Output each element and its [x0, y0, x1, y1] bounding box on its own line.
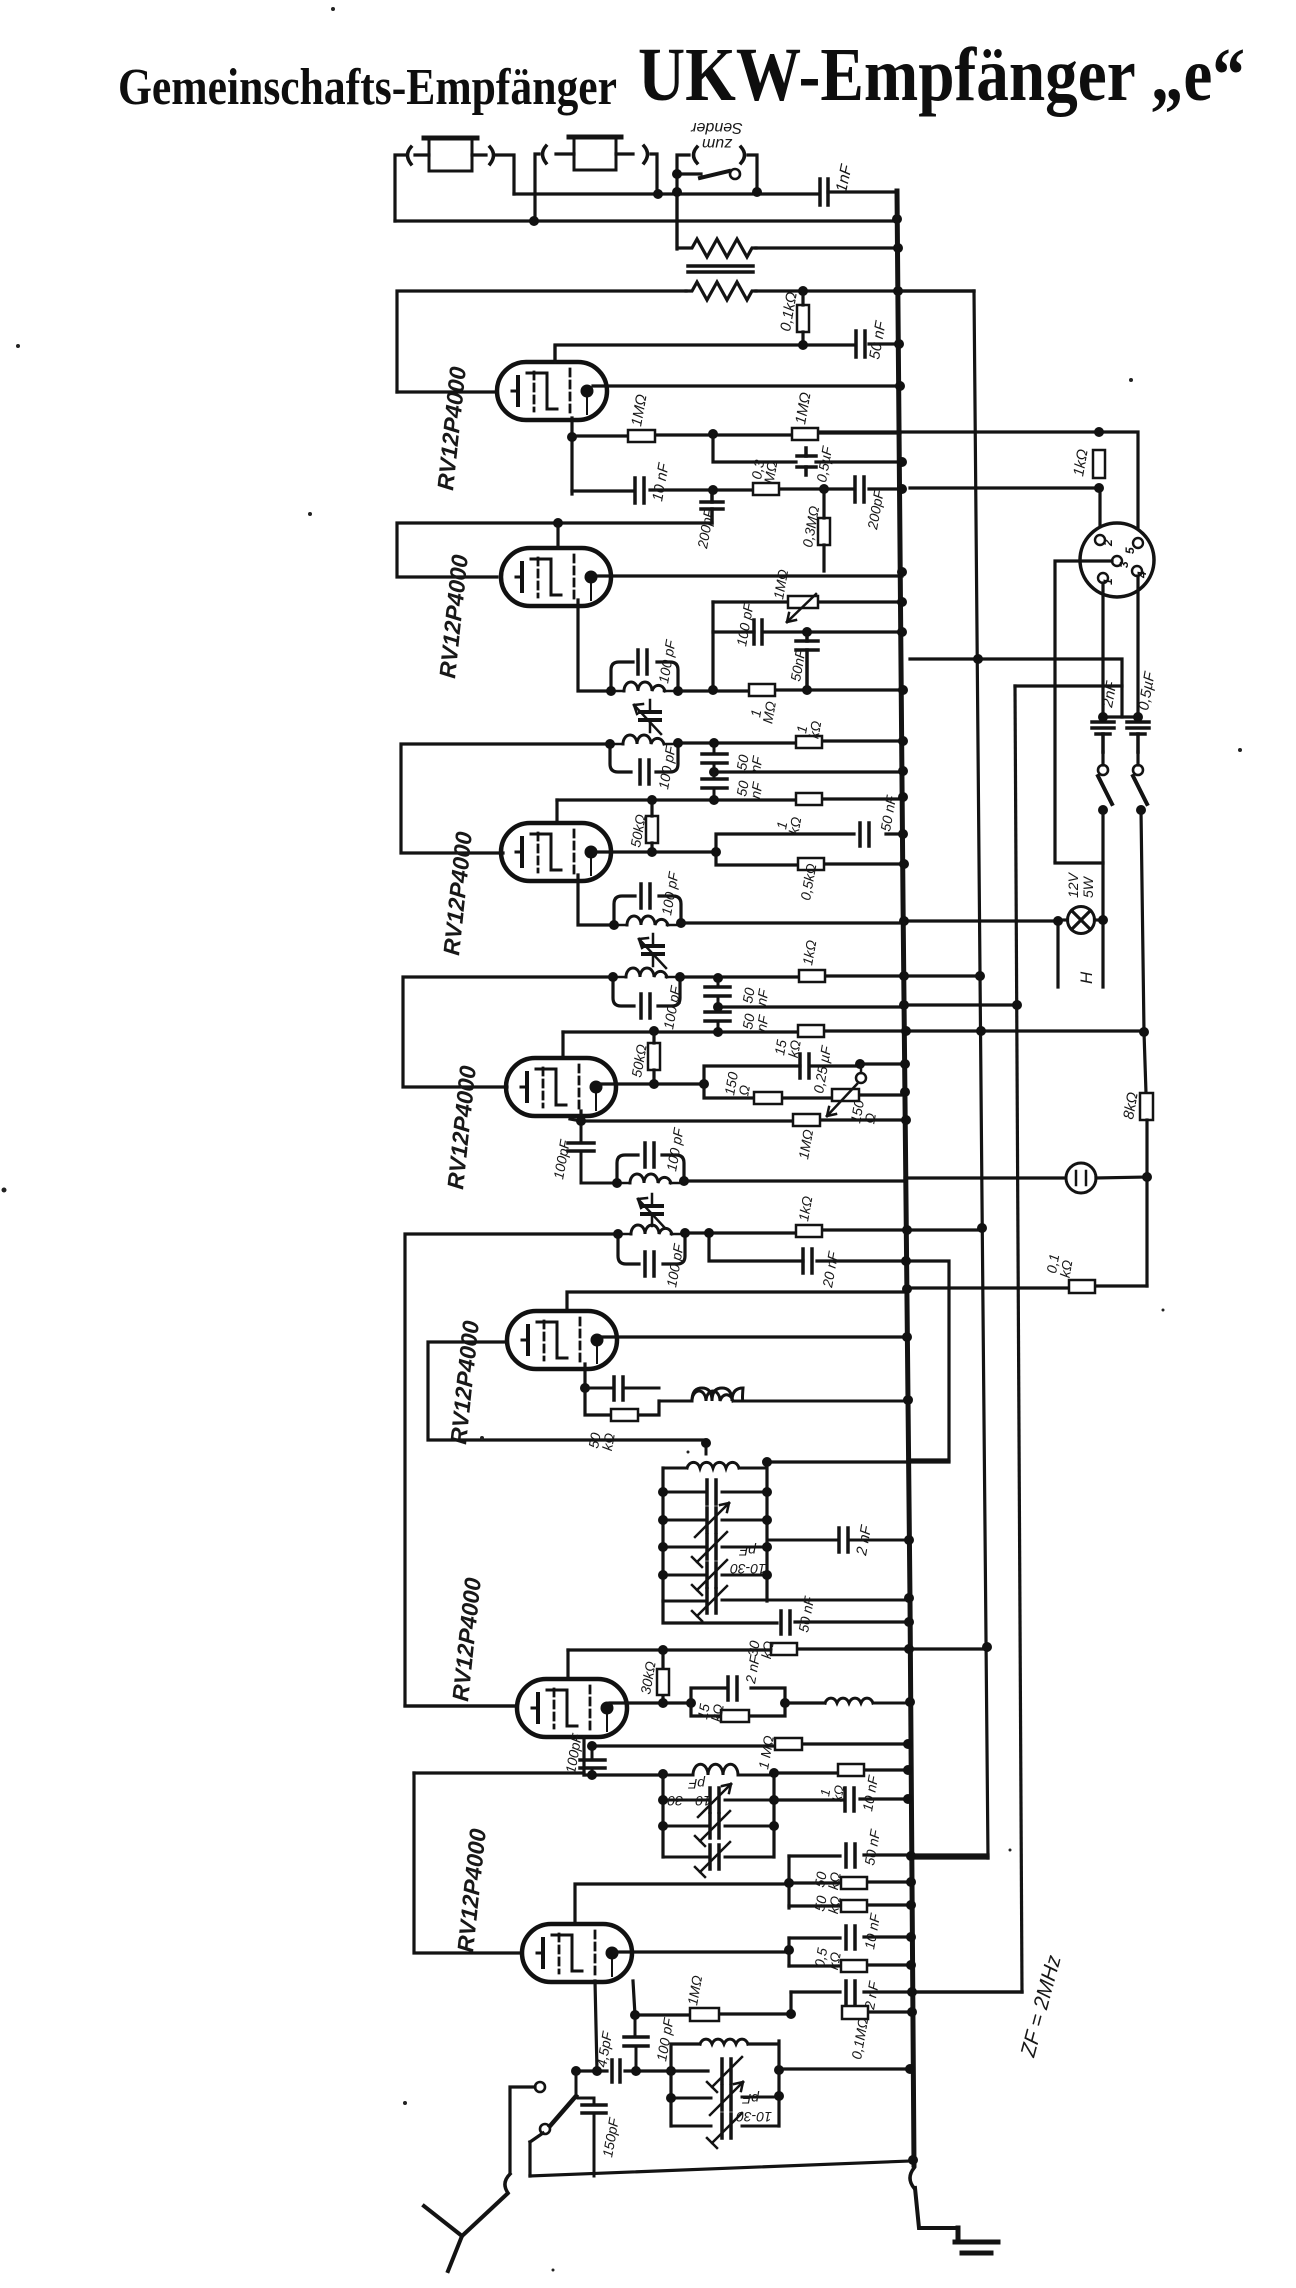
coupling transformer box K1 — [424, 138, 477, 171]
capacitor 150pF — [578, 2098, 606, 2176]
wire contact2 down — [530, 2133, 543, 2176]
gang2 rung2 dots — [658, 1821, 779, 1831]
wire V4 top pin — [561, 1032, 564, 1057]
wire row 1800 right (10nF) — [774, 1799, 908, 1800]
wire 716 up to row 834 — [716, 834, 903, 852]
junction dot 714,772 — [709, 767, 719, 777]
junction dot bus 834 — [898, 829, 908, 839]
junction dot second rail — [529, 216, 539, 226]
resistor 0,1kOhm (bottom right) — [1069, 1280, 1095, 1293]
junction dots row1231 — [902, 1223, 987, 1235]
gang rung 4 dots — [658, 1570, 772, 1580]
antenna switch contact 2 — [540, 2124, 550, 2134]
junction dots bus/V975 row977 — [899, 971, 985, 981]
junction dot bus row218 — [892, 214, 902, 224]
capacitor 100pF (stage6 vert) — [580, 1746, 605, 1775]
wire K1 right lead — [472, 155, 514, 194]
coil choke stage6 — [825, 1698, 909, 1703]
oscillator tank coil — [428, 1440, 767, 1468]
gang rung 3 trimmer — [663, 1532, 767, 1567]
wire anode row to coil — [785, 1701, 825, 1704]
wire V975 branch row 976 — [904, 974, 980, 977]
resistor 1kOhm (row800) — [796, 793, 822, 805]
potentiometer 150 Ohm — [827, 1064, 866, 1116]
capacitor 100pF tank4b — [645, 1252, 654, 1276]
capacitor 2nF (osc) — [767, 1528, 909, 1552]
junction dots row1650 — [658, 1642, 992, 1655]
tube V5 RV12P4000 — [507, 1311, 617, 1369]
coupling transformer box K2 — [569, 137, 621, 170]
junction dot bus 865 — [899, 859, 909, 869]
junction dot bus 602 — [897, 597, 907, 607]
junction dot 789,1948 — [784, 1945, 794, 1955]
wire V3 anode row 852 — [594, 850, 716, 853]
wire rung1 to bus — [779, 2067, 910, 2070]
wire K2 left lead — [535, 154, 574, 221]
junction dot 592,1746 — [587, 1741, 597, 1751]
vertical net V975 — [974, 291, 988, 1858]
coupling bracket left of K1 — [408, 147, 412, 164]
resistor 1MOhm (a) — [628, 430, 655, 442]
capacitor 100pF tank4a — [645, 1143, 654, 1167]
wire V7 anode row 1950 — [614, 1950, 789, 1953]
junction dots tank2b — [605, 738, 683, 749]
wire row 659 to feedthrough caps — [910, 659, 1122, 717]
junction dot 572,437 — [567, 432, 577, 442]
resistor 30kOhm (row1650) — [771, 1643, 797, 1655]
gang rung 1 capacitor — [663, 1480, 767, 1504]
resistor 1kOhm (row977) — [799, 970, 825, 982]
junction dots row1084 — [649, 1079, 709, 1089]
capacitor 100pF (stage5 RC) — [585, 1377, 659, 1400]
wire switch chain down to 8k — [1144, 1032, 1146, 1093]
junction dot bus row245 — [893, 243, 903, 253]
wire V6 anode row 1703 — [610, 1701, 691, 1704]
trimmer coupling stage4 — [638, 1194, 665, 1228]
wire row 435 — [572, 433, 900, 436]
junction dot 659/V975 — [973, 654, 983, 664]
svg-text:2: 2 — [1101, 539, 1115, 547]
svg-text:Gemeinschafts-Empfänger: Gemeinschafts-Empfänger — [118, 59, 617, 116]
wire grid V7 loop — [414, 1773, 522, 1953]
power switch left pole — [1098, 752, 1112, 804]
wire link row 863 — [1055, 861, 1103, 864]
junction dots tank3b — [608, 972, 685, 982]
wire zigzag2 left to grid loop V1 — [397, 291, 686, 392]
junction dot bus 1701 — [905, 1697, 915, 1707]
junction dot bus 1770 — [903, 1765, 913, 1775]
resistor 0,1MOhm (row2013) — [842, 2006, 868, 2019]
gang rung 4 trimmer — [663, 1560, 767, 1595]
wire 1064 to bus — [860, 1062, 905, 1065]
vertical net V1015 — [1015, 686, 1022, 1992]
capacitor 100pF (stage7 vert) — [624, 2015, 648, 2071]
wire V975 bottom to bus — [910, 1856, 988, 1859]
junction dot bus 741 — [898, 736, 908, 746]
junction dots tank4a — [612, 1176, 689, 1188]
resistor 1kOhm (row742) — [796, 736, 822, 748]
wire row 2071 — [576, 2069, 708, 2072]
junction dot row344 — [798, 340, 808, 350]
resistor 0,5kOhm (row1966) — [789, 1960, 911, 1972]
wire row 1938 (10nF) — [789, 1937, 911, 1938]
junction dot 767,1462 — [762, 1457, 772, 1467]
capacitor 50nF (a stack) — [702, 743, 727, 772]
capacitor 100pF (stage4 vert) — [568, 1121, 617, 1183]
wire V1 top pin row 345 — [553, 346, 556, 362]
wire K1 left lead — [395, 155, 429, 221]
wire row 490 — [572, 489, 902, 491]
wire V4 anode row 1084 — [599, 1082, 704, 1085]
junction dot 709,1233 — [704, 1228, 714, 1238]
junction dot bus 1064 — [900, 1059, 910, 1069]
wire row 1286 bus to 0,1k — [906, 1286, 1147, 1288]
gang rung 2 dots — [658, 1515, 772, 1525]
junction dot bus 2069 — [905, 2064, 915, 2074]
IF tank L2b (stage3 secondary) — [613, 968, 680, 1006]
junction dots tank4b — [613, 1228, 690, 1239]
tube V7 RV12P4000 — [522, 1924, 632, 1982]
junction dots row852 — [647, 847, 721, 857]
wire tank3b left to grid V4 — [403, 977, 613, 1087]
wire K2 right lead — [616, 154, 657, 194]
capacitor 10nF (row1800) — [845, 1788, 854, 1811]
resistor 0,3MOhm (h) — [753, 483, 779, 495]
wire row 800 — [557, 799, 903, 800]
junction dot bus 1336 — [902, 1332, 912, 1342]
junction dots row2071 — [571, 2065, 784, 2076]
wire tank3a right to bus (lamp row) — [681, 921, 904, 924]
wire V2 top pin — [556, 523, 559, 547]
wire row 488 to socket pin2 — [910, 488, 1100, 535]
junction dot 713,690 — [708, 685, 718, 695]
wire row 686 — [1015, 684, 1122, 687]
capacitor 10nF (row1938) — [846, 1926, 855, 1949]
junction dot 592,1775 — [587, 1770, 597, 1780]
wire row 1623 (50nF) — [663, 1601, 909, 1623]
capacitor 2nF (feedthrough) — [1092, 722, 1114, 752]
junction dot bus 1540 — [904, 1535, 914, 1545]
junction dot bus 1905 — [906, 1900, 916, 1910]
main supply bus — [897, 191, 914, 2165]
RC block 15kOhm 2nF — [691, 1677, 785, 1722]
wire top rail to bus — [514, 192, 817, 195]
IF tank L3b (stage4 secondary) — [618, 1225, 685, 1264]
wire row 602 potentiometer — [713, 600, 902, 603]
resistor 1MOhm (row2015) — [690, 2008, 719, 2021]
junction dot 718,978 — [713, 973, 723, 983]
wire switch left lead — [677, 155, 689, 249]
junction dot 713,434 — [708, 429, 718, 439]
junction dot 585,1388 — [580, 1383, 590, 1393]
capacitor 0,25uF — [800, 1054, 809, 1078]
capacitor 50nF (stage3 a) — [705, 978, 730, 1007]
switch S1 (Sender) — [677, 169, 740, 179]
iron core bars — [688, 266, 753, 272]
wire V7 cathode lead — [595, 1981, 597, 2071]
node rail x791 — [789, 1992, 792, 2015]
svg-text:UKW-Empfänger „e“: UKW-Empfänger „e“ — [638, 33, 1245, 117]
wire row 771 — [714, 770, 903, 773]
wire V1 bottom lead — [570, 418, 573, 494]
resistor 1MOhm (row1745) — [775, 1738, 802, 1750]
capacitor 100pF tank2b — [640, 760, 649, 784]
resistor 8kOhm — [1140, 1093, 1153, 1120]
wire left pole to lamp node — [1101, 810, 1104, 920]
wire osc row right — [767, 1460, 949, 1463]
junction dot bus 1992 — [907, 1987, 917, 1997]
wire V6 bottom lead — [582, 1737, 585, 1775]
junction dot bus 1120 — [901, 1115, 911, 1125]
resistor 50kOhm (stage3 grid) — [646, 800, 658, 852]
gang bottom rung trimmer — [663, 1586, 908, 1621]
junction dot 581,1121 — [576, 1116, 586, 1126]
wire 716 down to row 865 — [716, 852, 904, 865]
wire 709 down to 20nF row — [709, 1233, 906, 1261]
capacitor 2nF (row1992) — [846, 1981, 855, 2004]
wire grid V5 from osc tank — [428, 1342, 706, 1440]
wire row 632 — [713, 630, 902, 633]
wire tank2b left to grid V3 — [401, 744, 610, 853]
wire 8k to meter — [1145, 1120, 1148, 1176]
wire V1015 bottom to bus — [909, 1990, 1022, 1993]
junction dot bus 1882 — [906, 1877, 916, 1887]
junction dot 807,632 — [802, 627, 812, 637]
bus bottom to ground — [915, 2188, 958, 2228]
junction dot bus 2160 — [908, 2155, 918, 2165]
svg-text:pF: pF — [738, 1543, 757, 1559]
wire row 2015 — [635, 2012, 912, 2015]
capacitor 20nF — [803, 1249, 812, 1273]
junction dot bus 462 — [897, 457, 907, 467]
capacitor 10nF — [635, 478, 644, 503]
wire V6 top pin — [566, 1650, 569, 1677]
junction dot 1kOhm top — [1094, 427, 1104, 437]
resistor 50kOhm (row1883) — [789, 1877, 911, 1889]
gang2 rung 1 trimmer — [663, 1784, 774, 1817]
wire socket pin1 down — [1101, 583, 1104, 715]
junction dot bus 1855 — [906, 1851, 916, 1861]
resistor 50kOhm (row1906) — [789, 1900, 911, 1912]
coil choke stage5 — [659, 1388, 907, 1401]
junction dot bus 1289 — [902, 1284, 912, 1294]
IF tank L1b (stage2 secondary) — [610, 735, 678, 772]
svg-text:5: 5 — [1123, 547, 1137, 554]
junction dot bus 1964 — [906, 1960, 916, 1970]
capacitor 50nF (b stack) — [702, 772, 727, 800]
wire V3 top pin — [555, 800, 558, 822]
svg-text:3: 3 — [1117, 561, 1131, 568]
tube V3 RV12P4000 — [501, 823, 611, 881]
bus break arc — [910, 2168, 914, 2188]
capacitor 50nF (stage2) — [796, 632, 818, 690]
junction dot meter right — [1142, 1172, 1152, 1182]
junction dot 807,690 — [802, 685, 812, 695]
resistor zigzag R-ant1 — [677, 192, 756, 257]
resistor 1kOhm (row1231) — [796, 1225, 822, 1237]
junction dot bus 1799 — [903, 1794, 913, 1804]
wire row 742 (1kOhm) — [678, 741, 903, 743]
resistor 1kOhm (right) — [1093, 450, 1105, 478]
junction dot 558,523 — [553, 518, 563, 528]
wire row 1007 — [718, 1005, 1016, 1007]
junction dots row1007 — [713, 1000, 1022, 1012]
trimmer coupling stage2 — [634, 700, 661, 734]
IF tank L2a (stage3 primary) — [614, 896, 681, 925]
wire row 523 — [397, 523, 712, 577]
wire row 1650 (30kOhm) — [568, 1649, 987, 1650]
gang2 rails — [663, 1773, 774, 1857]
wire row 1992 (2nF) — [791, 1990, 1022, 1993]
wire V3 bottom to tank3a — [578, 875, 614, 925]
lamp heater stubs — [1058, 925, 1103, 987]
wire 713 up to rows 632/602 — [711, 602, 714, 690]
resistor 1kOhm (row1771) — [838, 1764, 864, 1776]
resistor 50kOhm (stage5 RC) — [585, 1388, 659, 1421]
capacitor 4,5pF — [612, 2060, 620, 2082]
resistor 1MOhm (b) — [792, 428, 818, 440]
junction dot 713,490 — [708, 485, 718, 495]
junction dot bus 1598 — [904, 1593, 914, 1603]
wire V2 anode down to tank — [578, 600, 611, 691]
coupling bracket left of K2 — [543, 146, 547, 163]
tuning gang rails — [663, 1468, 767, 1601]
wire meter row from bus — [905, 1176, 1066, 1179]
wire contact1 to antenna — [510, 2087, 535, 2172]
wire row 1121 — [581, 1120, 906, 1121]
junction dot osc tap — [701, 1438, 711, 1448]
junction dots row1703 — [658, 1698, 790, 1708]
wire row 1745 — [592, 1744, 908, 1746]
capacitor 200pF (vertical) — [701, 490, 723, 523]
gang3 rung2 trimmer — [671, 2082, 779, 2115]
wire short V949 link — [906, 1261, 949, 1460]
junction dot bus 1261 — [901, 1256, 911, 1266]
wire socket pin4 down — [1136, 576, 1139, 715]
junction dot 714,743 — [709, 738, 719, 748]
wire meter node down to 0,1k row — [1145, 1177, 1148, 1286]
junction dot 789,1883 — [784, 1878, 794, 1888]
cathode network box stage4 — [704, 1066, 904, 1098]
wire row 1771 right — [774, 1770, 908, 1773]
svg-text:pF: pF — [687, 1776, 706, 1792]
gang rung 2 trimmer — [663, 1503, 767, 1537]
junction dot bus 1399 — [903, 1395, 913, 1405]
junction dots row800 — [647, 792, 908, 805]
wire bottom return row — [530, 2161, 910, 2176]
coil gang2 top — [663, 1764, 774, 1775]
wire switch right lead — [748, 155, 757, 191]
resistor 1MOhm (row690) — [749, 684, 775, 696]
wire right pole down to row1032 — [1141, 810, 1144, 1032]
IF tank L3a (stage4 primary) — [617, 1155, 684, 1183]
junction dots row2015 — [630, 2007, 917, 2020]
bracket left of switch — [694, 147, 698, 163]
junction dots under switch — [1098, 805, 1146, 815]
junction dots row 291 — [798, 286, 903, 296]
ground symbol — [955, 2228, 998, 2253]
capacitor 100pF tank3b — [641, 994, 650, 1018]
power switch right pole — [1133, 752, 1147, 804]
wire row 571 — [594, 574, 902, 577]
bracket right of switch — [741, 147, 745, 163]
wire grid V6 — [405, 1704, 517, 1707]
wire tank4b right row 1231 — [685, 1230, 982, 1233]
wire second rail — [395, 219, 898, 222]
capacitor 200pF (row490) — [855, 477, 864, 502]
meter instrument — [1066, 1163, 1147, 1193]
gang3 bottom rung trimmer — [671, 2113, 779, 2148]
junction dots gang2 top — [658, 1768, 779, 1779]
gang3 rung1 trimmer — [707, 2057, 742, 2092]
svg-text:10 - 30: 10 - 30 — [667, 1793, 711, 1809]
junction dot bus 386 — [895, 381, 905, 391]
gang3 rung2 dots — [666, 2091, 784, 2103]
wire V4 bottom lead — [570, 1111, 581, 1121]
wire row 1775 — [414, 1773, 663, 1775]
resistor 30kOhm (vertical) — [657, 1650, 669, 1703]
resistor 0,5kOhm — [798, 858, 824, 870]
resistor 0,3MOhm (vertical) — [818, 489, 830, 571]
junction dots row1032 — [649, 1026, 911, 1037]
resistor 50kOhm (stage4 grid) — [648, 1031, 660, 1084]
capacitor 100pF tank2a — [638, 650, 647, 674]
wire tank4b left to grid V6 loop — [405, 1234, 618, 1706]
junction dot switch left — [672, 169, 682, 179]
wire row 1032 — [563, 1031, 906, 1032]
wire tank2a right row 690 — [678, 690, 902, 691]
wire cap node 718 — [1103, 715, 1138, 718]
resistor 15kOhm (row1032) — [798, 1025, 824, 1037]
capacitor 1nF — [820, 179, 897, 205]
resistor 150 Ohm fixed — [754, 1092, 782, 1104]
wire zigzag2 right to bus — [756, 289, 974, 292]
resistor zigzag R-ant2 — [686, 282, 756, 300]
capacitor 50nF (row1623) — [781, 1611, 790, 1634]
resistor 0,1kOhm (screen V1) — [797, 305, 809, 332]
junction dots top rail — [653, 187, 762, 199]
antenna lead and arrow — [424, 2194, 507, 2271]
junction dot bus 1621 — [904, 1617, 914, 1627]
wire row 344 anode V1 to bus — [555, 344, 899, 362]
wire V5 bottom lead — [583, 1364, 586, 1388]
tube V2 RV12P4000 — [501, 548, 611, 606]
node rail x789 lower — [787, 1938, 790, 1966]
junction dots row1032 right — [976, 1026, 1149, 1037]
junction dot bus 632 — [897, 627, 907, 637]
wire V5 anode row 1337 — [600, 1335, 907, 1338]
wire V975 top corner from row291 — [898, 289, 974, 292]
socket pin numbers — [1101, 539, 1149, 585]
junction dot bus 489 — [897, 484, 907, 494]
junction dot bus 1937 — [906, 1932, 916, 1942]
antenna break arc — [505, 2174, 510, 2193]
capacitor 100pF (row632) — [754, 620, 762, 644]
wire grid V1 — [397, 390, 497, 393]
svg-text:H: H — [1077, 971, 1096, 984]
capacitor 50nF (stage3 b) — [705, 1007, 730, 1032]
junction dot bus row344 — [894, 339, 904, 349]
capacitor 0,5uF (stage1) — [797, 448, 816, 475]
IF tank L1a (stage2 primary) — [611, 662, 678, 691]
lamp 12V 5W — [1058, 907, 1103, 934]
junction dot 860,1064 — [855, 1059, 865, 1069]
wire row 1290 (V5 top pin) — [567, 1292, 906, 1310]
wire tank3b right row 977 — [680, 976, 904, 977]
junction dots tank3a — [609, 918, 686, 930]
gang2 rung 2 trimmer — [663, 1811, 774, 1846]
coupling bracket right of K2 — [644, 146, 648, 163]
